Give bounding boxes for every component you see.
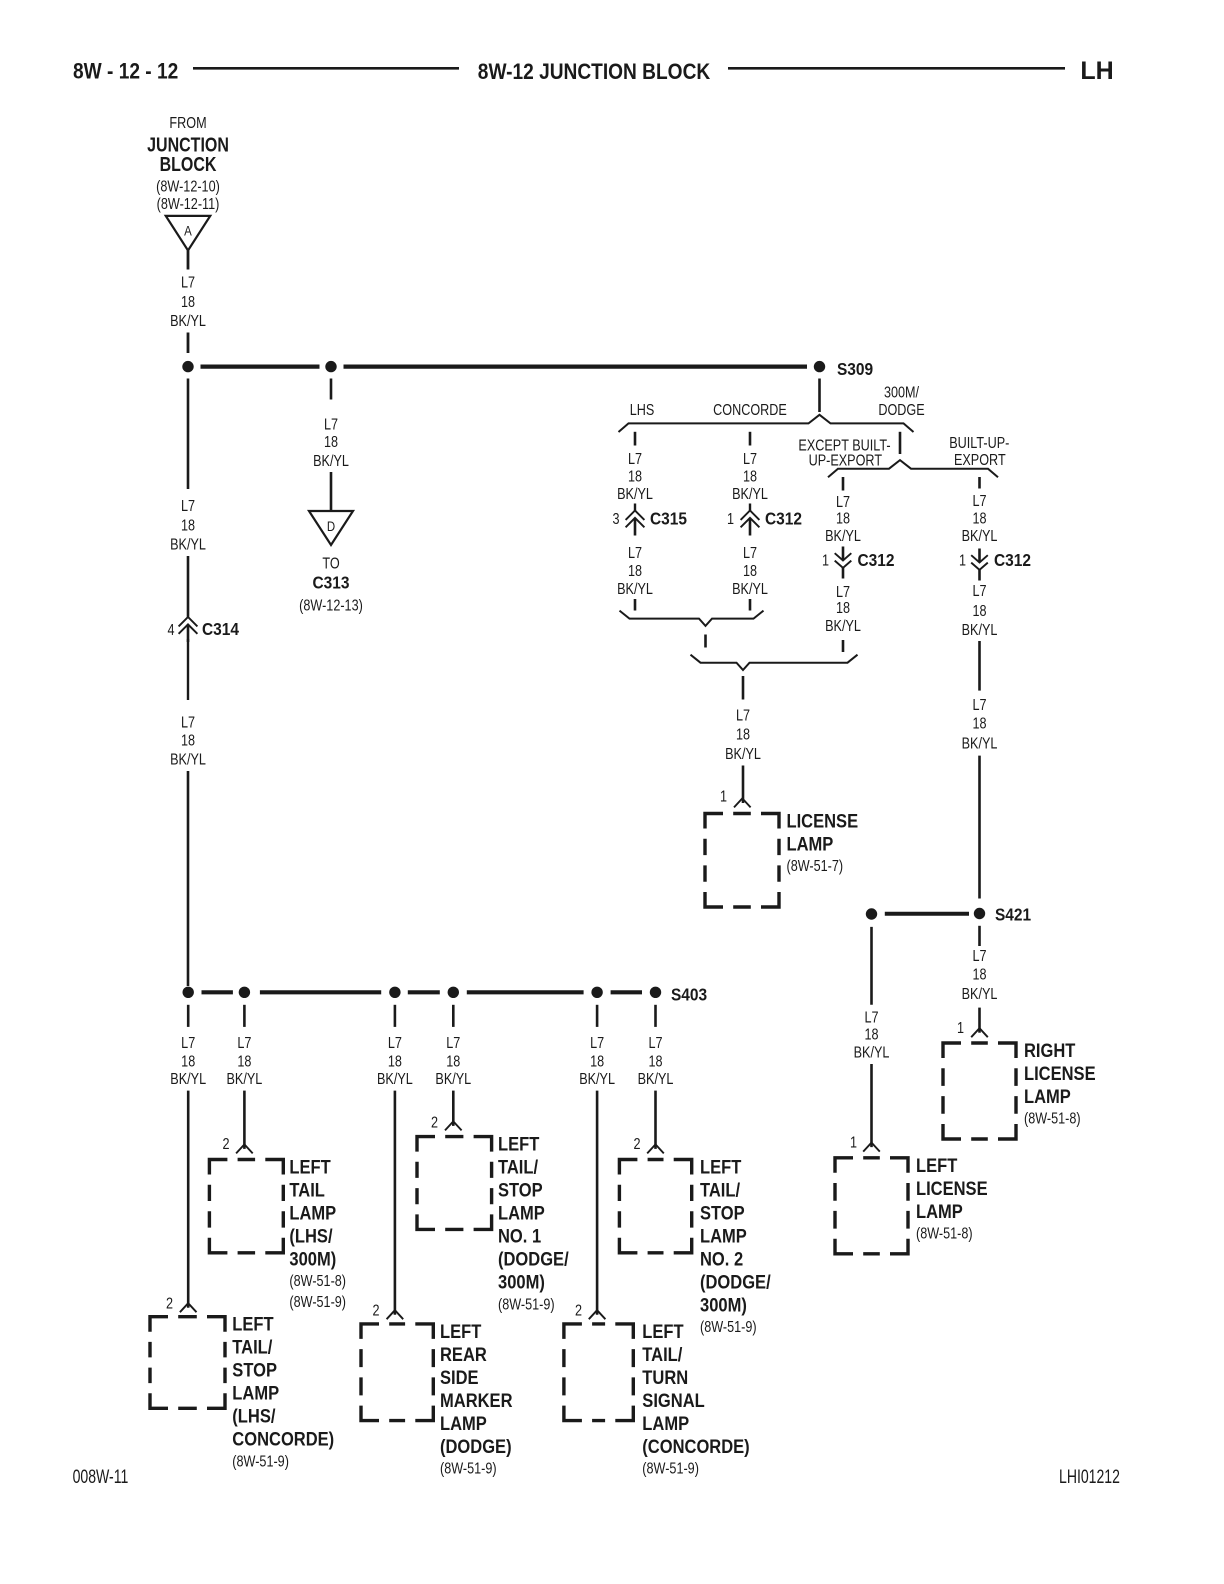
- svg-text:L7: L7: [736, 707, 750, 725]
- branch tick below S403 bus #5: [596, 1005, 599, 1027]
- svg-text:L7: L7: [181, 274, 195, 292]
- svg-text:LAMP: LAMP: [232, 1383, 279, 1404]
- svg-text:L7: L7: [836, 493, 850, 511]
- branch tick into gather brace (LHS): [634, 599, 637, 611]
- pin chevron (tail/turn): [589, 1310, 606, 1319]
- wire label L7 18 BK/YL (S403 drop 4): [435, 1034, 471, 1088]
- svg-text:2: 2: [431, 1114, 438, 1132]
- branch label LHS: [630, 402, 655, 420]
- svg-text:(8W-51-8): (8W-51-8): [289, 1273, 346, 1291]
- connector C312 pin 1 (built-up): [959, 552, 966, 570]
- connector C312 label (built-up): [994, 550, 1031, 570]
- svg-text:TAIL/: TAIL/: [498, 1157, 538, 1178]
- svg-text:BLOCK: BLOCK: [160, 154, 217, 176]
- gather brace LHS/CONCORDE: [620, 611, 764, 626]
- left tail/stop lamp lhs/concorde (component box): [150, 1317, 225, 1409]
- svg-text:L7: L7: [836, 583, 850, 601]
- svg-text:2: 2: [222, 1136, 229, 1154]
- license lamp label: [787, 810, 859, 875]
- wire segment into S421: [978, 756, 981, 899]
- svg-text:L7: L7: [181, 714, 195, 732]
- svg-text:BK/YL: BK/YL: [226, 1071, 262, 1089]
- header page number 8W-12-12: [73, 59, 178, 84]
- pin chevron (lhs/concorde tail/stop): [180, 1303, 197, 1312]
- svg-text:LEFT: LEFT: [700, 1156, 741, 1177]
- connector C312 pin 1 (except): [822, 552, 829, 570]
- svg-text:L7: L7: [181, 498, 195, 516]
- wire segment into splice S309 bus: [187, 333, 190, 354]
- svg-text:L7: L7: [628, 544, 642, 562]
- branch tick below S403 bus #1: [187, 1005, 190, 1027]
- wire into right license lamp: [978, 1008, 981, 1033]
- junction node S403 bus #2: [239, 987, 250, 998]
- wire label L7 18 BK/YL (below C312 except): [825, 583, 861, 635]
- wire below C314: [187, 639, 189, 700]
- left license lamp pin chevron: [863, 1143, 880, 1152]
- distribution brace at S309: [619, 415, 914, 432]
- wire label L7 18 BK/YL (feed): [170, 274, 206, 330]
- svg-text:CONCORDE): CONCORDE): [232, 1429, 334, 1450]
- connector C312 label (concorde): [765, 508, 802, 528]
- svg-text:18: 18: [743, 562, 757, 580]
- svg-text:(CONCORDE): (CONCORDE): [642, 1436, 749, 1457]
- svg-text:18: 18: [590, 1053, 604, 1071]
- label FROM JUNCTION BLOCK: [147, 115, 229, 214]
- wire below splice S309: [818, 379, 821, 413]
- connector C312 pin 1 (concorde): [727, 511, 734, 529]
- wire into license lamp: [742, 766, 745, 804]
- connector C315 label: [650, 508, 687, 528]
- svg-text:LEFT: LEFT: [289, 1156, 330, 1177]
- svg-text:(LHS/: (LHS/: [289, 1225, 332, 1246]
- branch tick below S403 bus #3: [394, 1005, 397, 1027]
- svg-text:300M): 300M): [289, 1248, 336, 1269]
- left tail/turn signal lamp label: [642, 1321, 749, 1478]
- wire to left tail/stop lamp no.2: [654, 1091, 657, 1149]
- header rule right: [728, 67, 1065, 70]
- svg-text:BK/YL: BK/YL: [170, 313, 206, 331]
- svg-text:BK/YL: BK/YL: [962, 528, 998, 546]
- svg-text:(DODGE/: (DODGE/: [700, 1271, 771, 1292]
- svg-text:BK/YL: BK/YL: [962, 735, 998, 753]
- svg-text:LEFT: LEFT: [440, 1321, 481, 1342]
- svg-text:L7: L7: [972, 493, 986, 511]
- svg-text:S421: S421: [995, 904, 1031, 924]
- svg-text:1: 1: [822, 552, 829, 570]
- svg-text:BK/YL: BK/YL: [377, 1071, 413, 1089]
- gather brace to license lamp feed: [691, 655, 858, 670]
- off-page connector A (from junction block): [166, 216, 211, 251]
- svg-text:C313: C313: [313, 573, 350, 593]
- svg-text:LAMP: LAMP: [916, 1201, 963, 1222]
- svg-text:L7: L7: [743, 544, 757, 562]
- branch tick except-built-up: [842, 477, 845, 491]
- svg-text:BK/YL: BK/YL: [725, 745, 761, 763]
- svg-text:L7: L7: [446, 1034, 460, 1052]
- off-page connector D (to C313): [309, 511, 353, 545]
- wire label L7 18 BK/YL (S403 drop 1): [170, 1034, 206, 1088]
- svg-text:18: 18: [446, 1053, 460, 1071]
- svg-text:C312: C312: [994, 550, 1031, 570]
- svg-text:BK/YL: BK/YL: [435, 1071, 471, 1089]
- S403 bus wire segment 5: [611, 990, 642, 994]
- svg-text:UP-EXPORT: UP-EXPORT: [809, 452, 883, 470]
- svg-text:L7: L7: [648, 1034, 662, 1052]
- svg-text:LAMP: LAMP: [1024, 1086, 1071, 1107]
- label BUILT-UP-EXPORT: [949, 435, 1009, 470]
- svg-text:SIDE: SIDE: [440, 1367, 479, 1388]
- svg-text:18: 18: [864, 1026, 878, 1044]
- svg-text:SIGNAL: SIGNAL: [642, 1390, 705, 1411]
- license lamp pin 1 label: [720, 788, 727, 806]
- in-line connector C315: [626, 511, 645, 536]
- wire into connector C314: [187, 556, 190, 617]
- svg-text:L7: L7: [181, 1034, 195, 1052]
- pin 2 label (side marker): [372, 1302, 379, 1320]
- pin 2 label (lhs/300m tail): [222, 1136, 229, 1154]
- svg-text:L7: L7: [743, 450, 757, 468]
- svg-text:TURN: TURN: [642, 1367, 688, 1388]
- left tail/stop lamp no.2 (component box): [619, 1160, 691, 1253]
- wire stem below connector A: [187, 251, 190, 270]
- left tail lamp lhs/300m label: [289, 1156, 346, 1311]
- wire label L7 18 BK/YL (except col): [825, 493, 861, 545]
- svg-text:LICENSE: LICENSE: [1024, 1063, 1096, 1084]
- svg-text:LEFT: LEFT: [642, 1321, 683, 1342]
- left tail lamp lhs/300m (component box): [209, 1160, 283, 1253]
- svg-text:BK/YL: BK/YL: [638, 1071, 674, 1089]
- svg-text:(DODGE/: (DODGE/: [498, 1249, 569, 1270]
- wire label L7 18 BK/YL (S403 drop 2): [226, 1034, 262, 1088]
- svg-text:LICENSE: LICENSE: [916, 1178, 988, 1199]
- svg-text:4: 4: [167, 621, 174, 639]
- in-line connector C312 (built-up): [971, 549, 988, 581]
- wire into left license lamp: [870, 1064, 873, 1147]
- label EXCEPT BUILT-UP-EXPORT: [798, 437, 890, 470]
- svg-text:18: 18: [972, 510, 986, 528]
- svg-text:18: 18: [181, 732, 195, 750]
- pin chevron (side marker): [387, 1310, 404, 1319]
- wire label L7 18 BK/YL (below C315): [617, 544, 653, 598]
- svg-text:LAMP: LAMP: [440, 1413, 487, 1434]
- svg-text:EXPORT: EXPORT: [954, 452, 1006, 470]
- svg-text:008W-11: 008W-11: [73, 1466, 129, 1488]
- wire to left tail/turn signal lamp: [596, 1091, 599, 1315]
- wire label L7 18 BK/YL (S403 drop 6): [638, 1034, 674, 1088]
- branch tick below S403 bus #4: [452, 1005, 455, 1027]
- splice S421 node: [974, 908, 985, 919]
- header title 8W-12 JUNCTION BLOCK: [478, 60, 710, 85]
- wire below node x188: [187, 379, 190, 490]
- left license lamp pin 1: [850, 1134, 857, 1152]
- svg-text:LHS: LHS: [630, 402, 655, 420]
- footer plate code LHI01212: [1059, 1466, 1120, 1488]
- connector C314 label: [202, 619, 240, 639]
- left rear side marker lamp label: [440, 1321, 513, 1478]
- wire segment built-up 1: [978, 641, 981, 691]
- svg-text:(8W-51-9): (8W-51-9): [700, 1319, 757, 1337]
- svg-text:(8W-51-9): (8W-51-9): [498, 1296, 555, 1314]
- svg-text:18: 18: [743, 468, 757, 486]
- svg-text:TO: TO: [322, 555, 339, 573]
- svg-text:18: 18: [736, 726, 750, 744]
- branch tick CONCORDE: [749, 432, 752, 446]
- svg-text:18: 18: [628, 562, 642, 580]
- svg-text:18: 18: [648, 1053, 662, 1071]
- svg-text:18: 18: [181, 517, 195, 535]
- svg-text:BK/YL: BK/YL: [732, 581, 768, 599]
- splice S421 label: [995, 904, 1031, 924]
- svg-text:(8W-12-11): (8W-12-11): [157, 196, 220, 214]
- branch tick into gather brace (CONCORDE): [749, 599, 752, 611]
- junction node S403 bus #1: [183, 987, 194, 998]
- wire label L7 18 BK/YL (below C312 built-up): [962, 583, 998, 640]
- svg-text:L7: L7: [388, 1034, 402, 1052]
- left rear side marker lamp (component box): [361, 1324, 433, 1421]
- wire label L7 18 BK/YL (above C314): [170, 498, 206, 554]
- distribution brace 300M/DODGE: [828, 460, 998, 477]
- svg-text:300M/: 300M/: [884, 384, 919, 402]
- svg-text:LAMP: LAMP: [289, 1202, 336, 1223]
- svg-text:D: D: [327, 518, 335, 534]
- svg-text:TAIL/: TAIL/: [642, 1344, 682, 1365]
- in-line connector C312 (concorde): [741, 511, 760, 536]
- right license lamp (component box): [943, 1043, 1016, 1139]
- wire below left S421 node: [870, 927, 873, 1005]
- svg-text:FROM: FROM: [169, 115, 206, 133]
- in-line connector C314: [179, 617, 198, 642]
- S421 bus wire: [885, 912, 969, 916]
- svg-text:2: 2: [575, 1302, 582, 1320]
- wire to left tail lamp lhs/300m: [243, 1091, 246, 1149]
- svg-text:18: 18: [972, 603, 986, 621]
- wire label L7 18 BK/YL (below C312 concorde): [732, 544, 768, 598]
- wire down to S403 bus: [187, 771, 190, 986]
- svg-text:LAMP: LAMP: [787, 833, 834, 854]
- bus wire segment 2: [344, 365, 808, 369]
- junction node S403 bus #5: [591, 987, 602, 998]
- splice S403 node: [650, 987, 661, 998]
- left tail/stop lamp lhs/concorde label: [232, 1314, 334, 1471]
- left tail/stop lamp no.1 (component box): [417, 1137, 492, 1230]
- license lamp (component box): [705, 814, 779, 908]
- branch tick below S403 bus #2: [243, 1005, 246, 1027]
- wire label L7 18 BK/YL (S403 drop 5): [579, 1034, 615, 1088]
- header rule left: [193, 67, 459, 70]
- svg-text:(LHS/: (LHS/: [232, 1406, 275, 1427]
- wire label L7 18 BK/YL (license feed): [725, 707, 761, 763]
- S403 bus wire segment 4: [467, 990, 584, 994]
- branch tick into gather brace (except): [842, 640, 845, 652]
- S403 bus wire segment 3: [408, 990, 440, 994]
- license lamp pin chevron: [734, 798, 751, 807]
- S403 bus wire segment 2: [260, 990, 381, 994]
- svg-text:BK/YL: BK/YL: [170, 751, 206, 769]
- pin chevron (tail/stop no.1): [445, 1121, 462, 1130]
- wire to left rear side marker lamp: [394, 1091, 397, 1315]
- svg-text:1: 1: [850, 1134, 857, 1152]
- svg-text:(8W-51-9): (8W-51-9): [289, 1294, 346, 1312]
- svg-text:DODGE: DODGE: [878, 401, 924, 419]
- connector C315 pin 3: [612, 511, 619, 529]
- svg-text:BK/YL: BK/YL: [825, 528, 861, 546]
- junction node at x331: [325, 361, 336, 372]
- svg-text:L7: L7: [628, 450, 642, 468]
- svg-text:LHI01212: LHI01212: [1059, 1466, 1120, 1488]
- pin chevron (lhs/300m tail): [236, 1144, 253, 1153]
- left tail/stop lamp no.2 label: [700, 1156, 771, 1336]
- svg-text:C315: C315: [650, 508, 687, 528]
- wire to left tail/stop lamp lhs/concorde: [187, 1091, 190, 1308]
- pin chevron (tail/stop no.2): [647, 1144, 664, 1153]
- svg-text:TAIL/: TAIL/: [700, 1179, 740, 1200]
- junction node left of S421: [866, 908, 877, 919]
- svg-text:REAR: REAR: [440, 1344, 487, 1365]
- svg-text:L7: L7: [972, 948, 986, 966]
- svg-text:BK/YL: BK/YL: [962, 986, 998, 1004]
- wire label L7 18 BK/YL (CONCORDE): [732, 450, 768, 503]
- svg-text:1: 1: [720, 788, 727, 806]
- left tail/turn signal lamp (component box): [564, 1324, 633, 1421]
- branch label CONCORDE: [713, 402, 787, 420]
- svg-text:L7: L7: [864, 1009, 878, 1027]
- splice S309 node: [814, 361, 825, 372]
- svg-text:BUILT-UP-: BUILT-UP-: [949, 435, 1009, 453]
- svg-text:18: 18: [836, 510, 850, 528]
- svg-text:2: 2: [372, 1302, 379, 1320]
- wire below node x331: [330, 379, 333, 400]
- in-line connector C312 (except): [835, 547, 852, 579]
- svg-text:8W-12 JUNCTION BLOCK: 8W-12 JUNCTION BLOCK: [478, 60, 710, 85]
- wire into connector D: [330, 472, 333, 516]
- svg-text:(8W-12-13): (8W-12-13): [299, 597, 363, 615]
- wire label L7 18 BK/YL (below C314): [170, 714, 206, 769]
- footer sheet code 008W-11: [73, 1466, 129, 1488]
- svg-text:BK/YL: BK/YL: [825, 618, 861, 636]
- right license lamp pin 1: [957, 1020, 964, 1038]
- svg-text:MARKER: MARKER: [440, 1390, 513, 1411]
- svg-text:LEFT: LEFT: [498, 1134, 539, 1155]
- wire below gather brace A: [704, 635, 707, 648]
- pin 2 label (lhs/concorde tail/stop): [166, 1295, 173, 1313]
- svg-text:(8W-51-9): (8W-51-9): [232, 1453, 289, 1471]
- splice S403 label: [671, 984, 707, 1004]
- svg-text:RIGHT: RIGHT: [1024, 1040, 1076, 1061]
- svg-text:CONCORDE: CONCORDE: [713, 402, 787, 420]
- wire below gather brace B: [742, 676, 745, 700]
- svg-text:18: 18: [836, 600, 850, 618]
- branch tick built-up-export: [978, 477, 981, 489]
- svg-text:2: 2: [166, 1295, 173, 1313]
- svg-text:L7: L7: [972, 583, 986, 601]
- svg-text:1: 1: [957, 1020, 964, 1038]
- wire below S421: [978, 926, 981, 946]
- svg-text:BK/YL: BK/YL: [617, 581, 653, 599]
- svg-text:A: A: [184, 223, 192, 239]
- wire label L7 18 BK/YL (to S421): [962, 697, 998, 753]
- svg-text:BK/YL: BK/YL: [313, 452, 349, 470]
- pin 2 label (tail/stop no.2): [633, 1136, 640, 1154]
- svg-text:L7: L7: [324, 416, 338, 434]
- svg-text:8W - 12 - 12: 8W - 12 - 12: [73, 59, 178, 84]
- svg-text:S309: S309: [837, 359, 873, 379]
- svg-text:3: 3: [612, 511, 619, 529]
- branch tick 300M/DODGE: [899, 432, 902, 454]
- svg-text:S403: S403: [671, 984, 707, 1004]
- svg-text:NO. 1: NO. 1: [498, 1226, 541, 1247]
- label TO C313 (8W-12-13): [299, 555, 363, 615]
- svg-text:18: 18: [972, 715, 986, 733]
- svg-text:C312: C312: [765, 508, 802, 528]
- svg-text:18: 18: [324, 434, 338, 452]
- svg-text:(8W-51-7): (8W-51-7): [787, 858, 844, 876]
- wire label L7 18 BK/YL (right license): [962, 948, 998, 1004]
- svg-text:(8W-51-9): (8W-51-9): [440, 1460, 497, 1478]
- svg-text:TAIL/: TAIL/: [232, 1337, 272, 1358]
- connector C314 pin 4: [167, 621, 174, 639]
- svg-text:LICENSE: LICENSE: [787, 810, 859, 831]
- svg-text:C314: C314: [202, 619, 240, 639]
- svg-text:STOP: STOP: [700, 1202, 745, 1223]
- svg-text:L7: L7: [972, 697, 986, 715]
- wire into C315: [634, 504, 636, 511]
- svg-text:18: 18: [628, 468, 642, 486]
- header sheet LH: [1080, 57, 1113, 85]
- svg-text:(8W-51-8): (8W-51-8): [916, 1225, 973, 1243]
- svg-text:18: 18: [237, 1053, 251, 1071]
- svg-text:BK/YL: BK/YL: [170, 1071, 206, 1089]
- right license lamp pin chevron: [971, 1028, 988, 1037]
- junction node S403 bus #4: [448, 987, 459, 998]
- branch tick below S403 bus #6: [654, 1005, 657, 1027]
- svg-text:LEFT: LEFT: [232, 1314, 273, 1335]
- branch tick LHS: [634, 432, 637, 446]
- svg-text:1: 1: [727, 511, 734, 529]
- wire label L7 18 BK/YL (left license): [854, 1009, 890, 1061]
- pin 2 label (tail/turn): [575, 1302, 582, 1320]
- svg-text:2: 2: [633, 1136, 640, 1154]
- svg-text:C312: C312: [858, 550, 895, 570]
- wire label L7 18 BK/YL (LHS): [617, 450, 653, 503]
- svg-text:LH: LH: [1080, 57, 1113, 85]
- wire into C312 concorde: [749, 504, 751, 511]
- svg-text:(8W-51-8): (8W-51-8): [1024, 1110, 1081, 1128]
- svg-text:NO. 2: NO. 2: [700, 1248, 743, 1269]
- svg-text:(DODGE): (DODGE): [440, 1436, 512, 1457]
- svg-text:(8W-51-9): (8W-51-9): [642, 1460, 699, 1478]
- svg-text:STOP: STOP: [498, 1180, 543, 1201]
- bus wire segment 1: [201, 365, 320, 369]
- svg-text:18: 18: [181, 1053, 195, 1071]
- splice S309 label: [837, 359, 873, 379]
- svg-text:(8W-12-10): (8W-12-10): [156, 178, 220, 196]
- left license lamp label: [916, 1155, 988, 1243]
- wire label L7 18 BK/YL (to C313): [313, 416, 349, 470]
- S403 bus wire segment 1: [202, 990, 233, 994]
- svg-text:BK/YL: BK/YL: [579, 1071, 615, 1089]
- left tail/stop lamp no.1 label: [498, 1134, 569, 1314]
- svg-text:LAMP: LAMP: [700, 1225, 747, 1246]
- connector C312 label (except): [858, 550, 895, 570]
- wire label L7 18 BK/YL (built-up col): [962, 493, 998, 546]
- svg-text:BK/YL: BK/YL: [854, 1044, 890, 1062]
- right license lamp label: [1024, 1040, 1096, 1128]
- svg-text:BK/YL: BK/YL: [732, 486, 768, 504]
- svg-text:TAIL: TAIL: [289, 1179, 325, 1200]
- wire label L7 18 BK/YL (S403 drop 3): [377, 1034, 413, 1088]
- wire to left tail/stop lamp no.1: [452, 1091, 455, 1126]
- pin 2 label (tail/stop no.1): [431, 1114, 438, 1132]
